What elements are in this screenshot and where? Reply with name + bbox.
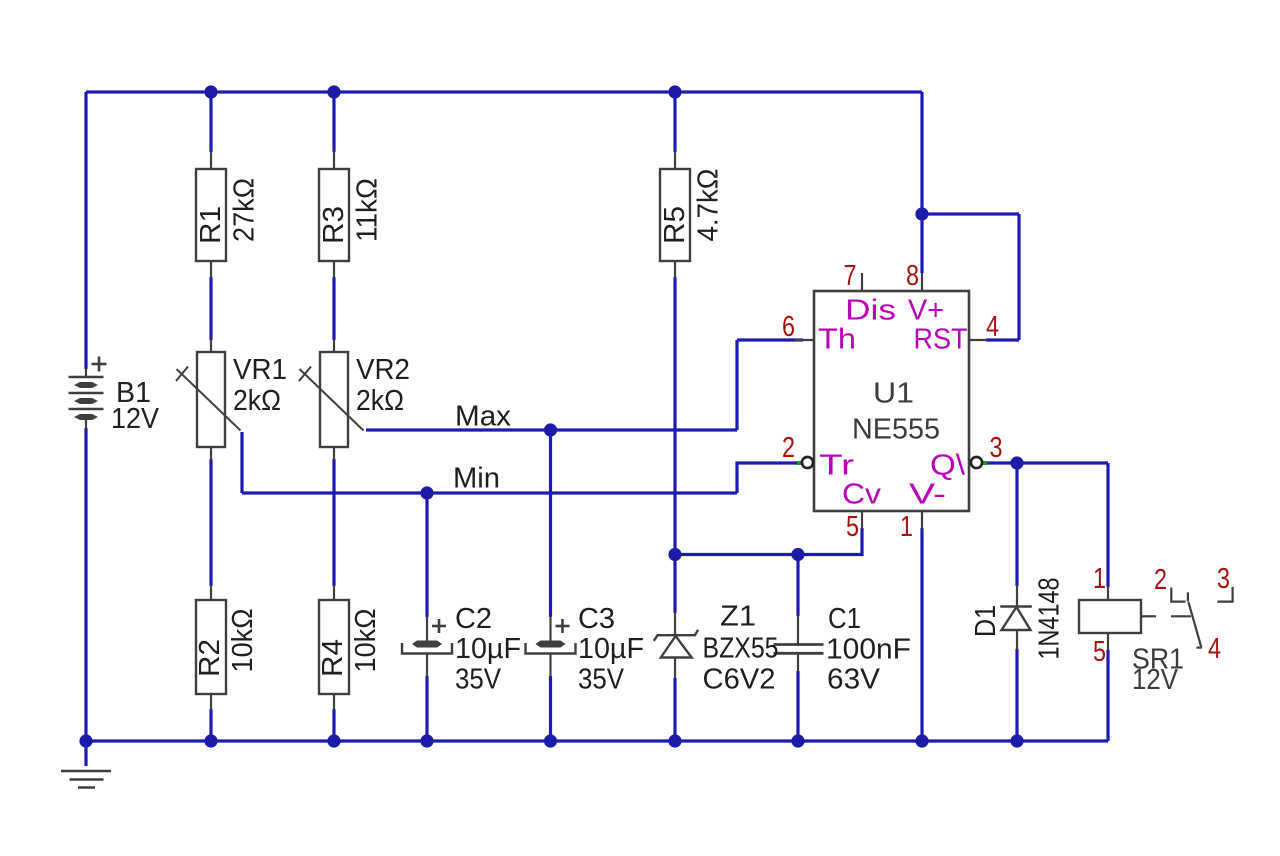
svg-text:2kΩ: 2kΩ: [356, 385, 404, 417]
svg-text:V-: V-: [909, 479, 946, 511]
svg-text:R4: R4: [317, 639, 349, 677]
svg-text:27kΩ: 27kΩ: [229, 178, 261, 242]
svg-text:100nF: 100nF: [826, 634, 911, 666]
svg-text:2: 2: [782, 432, 795, 464]
svg-text:7: 7: [844, 260, 857, 292]
svg-text:63V: 63V: [827, 664, 881, 696]
svg-text:C6V2: C6V2: [703, 664, 776, 696]
svg-text:4: 4: [986, 311, 999, 343]
svg-text:Z1: Z1: [720, 601, 756, 633]
svg-text:Th: Th: [818, 324, 856, 356]
svg-text:U1: U1: [873, 378, 914, 410]
svg-text:VR2: VR2: [356, 354, 410, 386]
svg-text:Max: Max: [455, 401, 511, 433]
svg-text:8: 8: [906, 260, 919, 292]
svg-text:Dis: Dis: [845, 295, 896, 327]
svg-text:Tr: Tr: [819, 450, 854, 482]
svg-text:R1: R1: [195, 206, 227, 244]
svg-text:NE555: NE555: [852, 414, 940, 446]
svg-text:1: 1: [900, 511, 913, 543]
svg-text:5: 5: [846, 511, 859, 543]
svg-text:10kΩ: 10kΩ: [227, 609, 259, 673]
svg-text:10kΩ: 10kΩ: [350, 609, 382, 673]
svg-text:BZX55: BZX55: [703, 633, 779, 665]
svg-text:3: 3: [1217, 563, 1230, 595]
svg-text:V+: V+: [908, 295, 944, 327]
svg-text:Q\: Q\: [930, 450, 966, 482]
svg-text:C1: C1: [828, 603, 861, 635]
svg-text:2: 2: [1154, 564, 1167, 596]
svg-text:12V: 12V: [1132, 664, 1179, 696]
svg-text:10µF: 10µF: [578, 633, 644, 665]
svg-text:4: 4: [1208, 633, 1221, 665]
svg-text:6: 6: [782, 311, 795, 343]
svg-text:1N4148: 1N4148: [1034, 578, 1066, 660]
svg-text:5: 5: [1093, 636, 1106, 668]
svg-text:10µF: 10µF: [455, 633, 521, 665]
svg-text:2kΩ: 2kΩ: [233, 385, 281, 417]
svg-text:12V: 12V: [111, 403, 160, 435]
svg-text:11kΩ: 11kΩ: [352, 178, 384, 242]
svg-text:C3: C3: [578, 603, 615, 635]
svg-text:RST: RST: [914, 324, 968, 356]
svg-text:D1: D1: [970, 605, 1002, 637]
svg-text:C2: C2: [455, 603, 492, 635]
svg-text:Min: Min: [453, 463, 500, 495]
svg-text:R3: R3: [318, 206, 350, 244]
svg-text:35V: 35V: [455, 664, 502, 696]
svg-text:R2: R2: [194, 639, 226, 677]
svg-text:3: 3: [990, 432, 1003, 464]
svg-text:4.7kΩ: 4.7kΩ: [693, 169, 725, 242]
svg-text:1: 1: [1093, 563, 1106, 595]
svg-text:VR1: VR1: [233, 354, 287, 386]
svg-text:Cv: Cv: [842, 479, 882, 511]
svg-text:35V: 35V: [578, 664, 625, 696]
svg-text:R5: R5: [659, 206, 691, 244]
